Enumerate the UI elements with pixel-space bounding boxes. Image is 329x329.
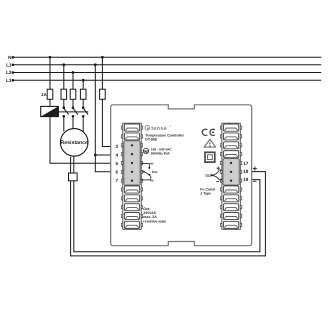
terminal strip right body (220, 123, 241, 229)
label + on TC wire (253, 167, 257, 171)
svg-text:L2: L2 (6, 70, 12, 75)
wire N to fuse F5 (101, 57, 103, 89)
svg-text:resistive load: resistive load (143, 219, 165, 223)
contact K1.3 (82, 106, 88, 117)
wire contactor K1 to controller terminal 5 (no) (50, 117, 111, 164)
fuse F3 (72, 89, 74, 99)
net N bus line (8, 55, 321, 60)
svg-text:tense: tense (151, 126, 167, 132)
fuse F4 (82, 89, 84, 99)
wire contact K1.2 to heater (72, 116, 74, 128)
wire fuse F5 to terminal 3 (102, 99, 111, 146)
contactor linkage line (58, 111, 88, 113)
junction node terminal 4 / terminal 6 jumper (94, 154, 97, 157)
thermocouple TC probe leads (70, 157, 72, 173)
svg-text:19: 19 (243, 177, 249, 182)
net L1 bus line (6, 62, 321, 67)
thermocouple TC head (69, 173, 78, 181)
fuse F2 (63, 89, 65, 99)
fuse F1 (49, 89, 51, 99)
contact K1.2 (72, 106, 78, 117)
contactor coil K1 (static relay symbol) (41, 106, 59, 116)
label Out: 200VAC max. 2A resistive load (143, 207, 165, 224)
svg-text:T/C: T/C (205, 174, 211, 178)
relay output common (Out) terminal 6 (143, 170, 159, 175)
svg-text:5: 5 (116, 161, 119, 166)
supply icon (143, 148, 150, 153)
svg-text:7: 7 (116, 178, 119, 183)
controller U1 DT-96E enclosure (111, 105, 252, 246)
svg-text:50/60Hz 8VA: 50/60Hz 8VA (151, 151, 170, 155)
svg-text:18: 18 (243, 169, 249, 174)
wire L1 to terminal 4 and terminal 6 (95, 65, 111, 155)
svg-text:nc: nc (150, 178, 154, 182)
logo Tense (145, 125, 171, 132)
wire fuse F3 to contact K1.2 (72, 99, 74, 107)
terminal strip left body (121, 123, 142, 229)
junction node L3 / heater phase drop (82, 79, 85, 82)
svg-text:4: 4 (116, 153, 119, 158)
svg-text:N: N (8, 55, 12, 60)
net L2 bus line (6, 70, 321, 75)
wire contact K1.1 to heater (63, 116, 65, 131)
CE mark (202, 129, 215, 135)
relay output contact (nc) stub terminal 7 (141, 174, 154, 182)
wire L2 to fuse F3 (72, 73, 74, 90)
label Fe Const J Type (200, 187, 216, 195)
relay output contact (no) stub terminal 5 (141, 162, 153, 169)
svg-text:J Type: J Type (200, 192, 211, 196)
warning triangle symbol (204, 139, 215, 147)
wire L1 to fuse F2 (63, 65, 65, 89)
svg-text:no: no (150, 162, 154, 166)
net L3 bus line (6, 78, 321, 83)
svg-text:17: 17 (243, 161, 249, 166)
wire L3 to fuse F4 (82, 80, 84, 89)
junction node L1 / heater phase drop (62, 63, 65, 66)
contact K1.1 (63, 106, 69, 117)
svg-text:L3: L3 (6, 78, 12, 83)
svg-text:L1: L1 (6, 62, 12, 67)
wire contact K1.3 to heater (82, 116, 84, 131)
thermocouple input symbol T/C (205, 167, 222, 182)
junction node N / contactor drop (49, 56, 52, 59)
svg-text:6: 6 (116, 169, 119, 174)
junction node L2 / heater phase drop (72, 71, 75, 74)
wire TC negative lead to terminal 19 (74, 180, 260, 252)
svg-text:3: 3 (116, 144, 119, 149)
class II insulation symbol (205, 152, 215, 162)
svg-text:Out: Out (152, 170, 158, 174)
junction node L1 / controller supply drop (94, 63, 97, 66)
svg-text:2A: 2A (41, 92, 46, 97)
wire TC positive lead to terminal 18 (71, 172, 266, 256)
svg-text:DT-96E: DT-96E (145, 138, 158, 142)
junction node N / controller supply drop (101, 56, 104, 59)
wire fuse F2 to contact K1.1 (63, 99, 65, 107)
fuse F5 (101, 89, 103, 99)
wire fuse F1 to contactor coil K1 (49, 99, 51, 106)
wire N to fuse F1 (49, 57, 51, 89)
label - on TC wire (253, 180, 256, 182)
heater R1 (Resistance) (60, 129, 88, 157)
wire fuse F4 to contact K1.3 (82, 99, 84, 107)
svg-text:Resistance: Resistance (60, 140, 88, 146)
